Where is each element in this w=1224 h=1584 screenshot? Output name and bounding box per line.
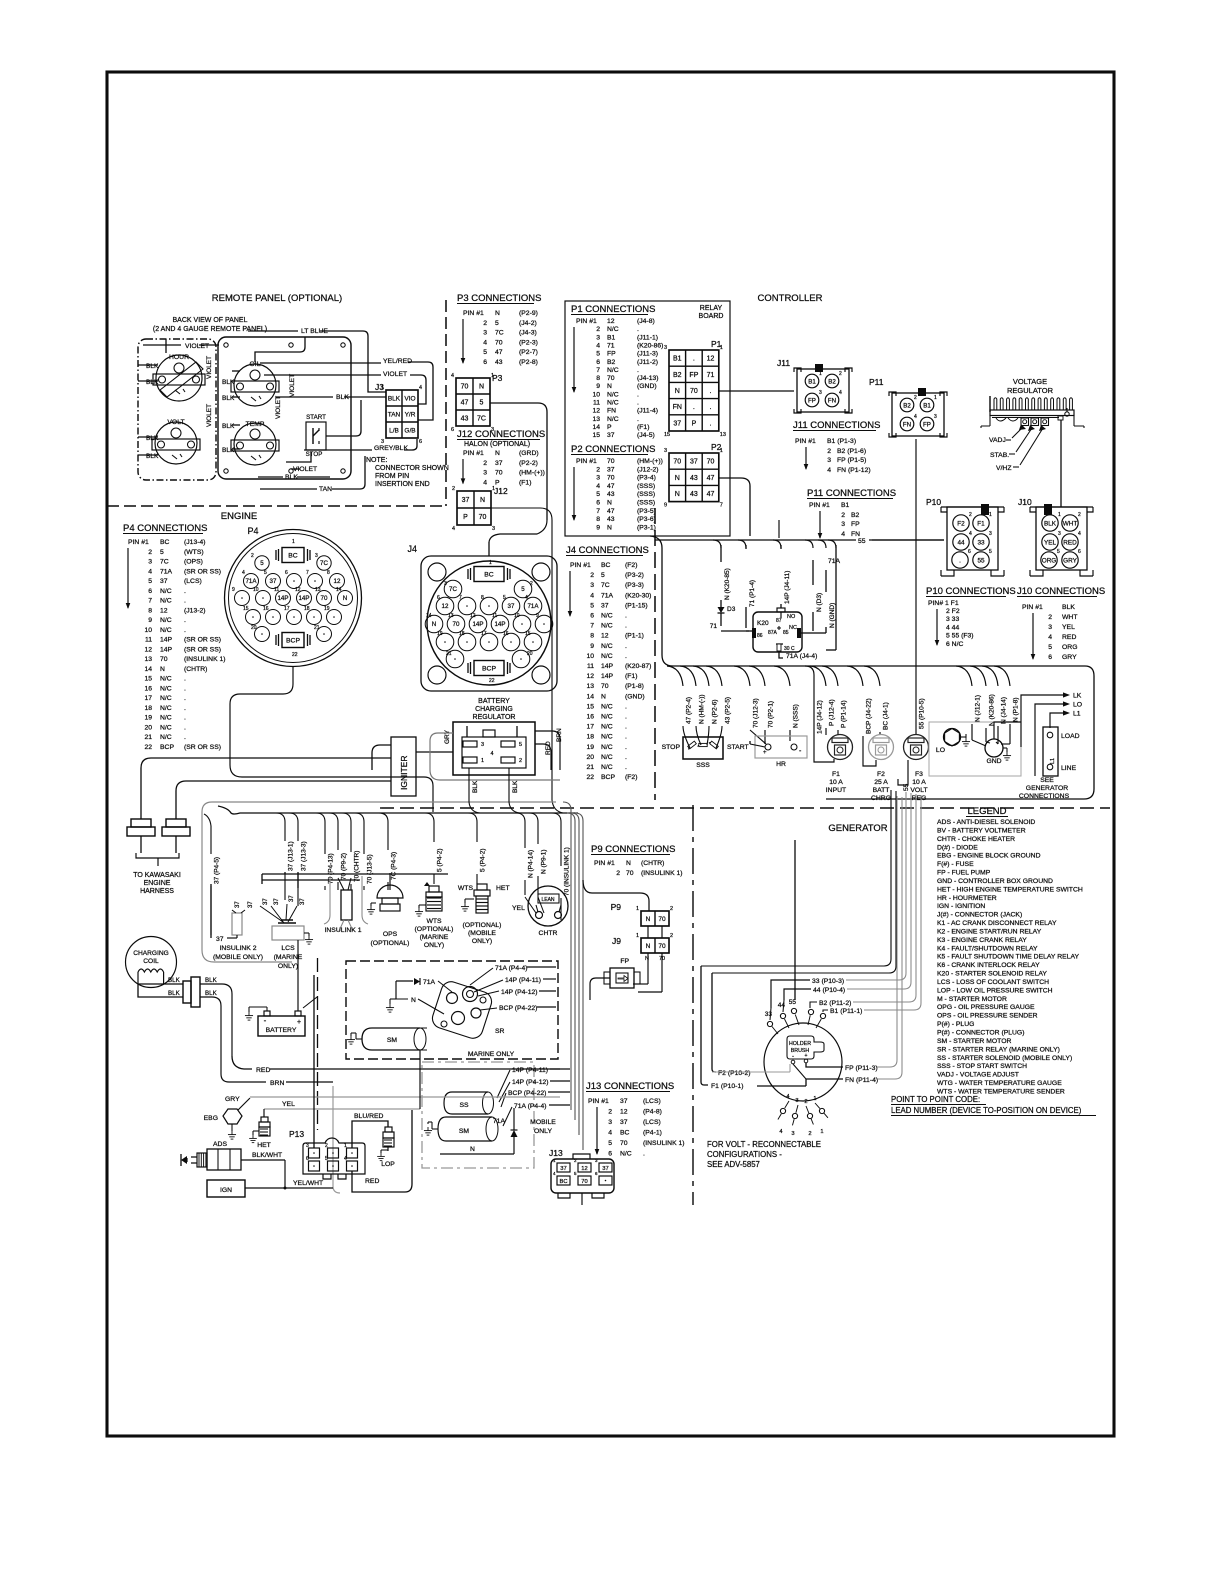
- svg-text:(LCS): (LCS): [184, 578, 202, 585]
- svg-text:12: 12: [592, 408, 600, 415]
- svg-text:ENGINE: ENGINE: [221, 511, 257, 522]
- svg-text:70 (J13-5): 70 (J13-5): [366, 854, 373, 884]
- svg-text:N/C: N/C: [601, 734, 613, 741]
- svg-text:.: .: [625, 703, 627, 710]
- svg-text:1: 1: [636, 906, 639, 912]
- svg-text:N: N: [601, 693, 606, 700]
- svg-text:(SSS): (SSS): [637, 491, 655, 498]
- svg-text:22: 22: [586, 774, 594, 781]
- svg-text:N/C: N/C: [160, 627, 172, 634]
- svg-text:6: 6: [596, 500, 600, 507]
- svg-text:14P (P4-11): 14P (P4-11): [512, 1067, 548, 1074]
- svg-text:RELAY: RELAY: [700, 305, 723, 312]
- svg-text:37: 37: [607, 432, 615, 439]
- svg-text:SEE: SEE: [1040, 777, 1054, 784]
- svg-text:SS - STARTER SOLENOID (MOBILE: SS - STARTER SOLENOID (MOBILE ONLY): [937, 1055, 1072, 1062]
- svg-text:N: N: [479, 384, 484, 391]
- svg-text:ENGINE: ENGINE: [144, 880, 171, 887]
- svg-text:47: 47: [707, 491, 715, 498]
- svg-text:22: 22: [489, 678, 495, 684]
- svg-text:(P3-6): (P3-6): [637, 516, 656, 523]
- svg-text:47: 47: [461, 400, 469, 407]
- svg-text:(LCS): (LCS): [643, 1098, 661, 1105]
- svg-text:BLK: BLK: [222, 447, 235, 454]
- svg-text:70: 70: [658, 916, 666, 923]
- svg-text:.: .: [184, 617, 186, 624]
- svg-text:13: 13: [315, 587, 321, 593]
- svg-text:N/C: N/C: [607, 326, 619, 333]
- svg-text:.: .: [625, 724, 627, 731]
- svg-text:2: 2: [530, 581, 533, 587]
- svg-text:7C: 7C: [320, 560, 328, 567]
- svg-text:FN: FN: [903, 422, 911, 429]
- svg-text:N/C: N/C: [601, 754, 613, 761]
- svg-text:3: 3: [596, 475, 600, 482]
- svg-text:4: 4: [419, 385, 422, 391]
- svg-text:3: 3: [934, 414, 937, 420]
- svg-text:J4 CONNECTIONS: J4 CONNECTIONS: [566, 545, 649, 556]
- svg-text:37: 37: [235, 901, 241, 908]
- svg-text:BLK: BLK: [146, 379, 159, 386]
- svg-text:.: .: [184, 598, 186, 605]
- svg-text:ORG: ORG: [1062, 644, 1077, 651]
- svg-text:5: 5: [495, 320, 499, 327]
- svg-text:4: 4: [596, 342, 600, 349]
- svg-text:BCP (J4-22): BCP (J4-22): [865, 698, 872, 734]
- svg-text:.: .: [625, 734, 627, 741]
- svg-text:P1 CONNECTIONS: P1 CONNECTIONS: [571, 304, 655, 315]
- svg-text:L/B: L/B: [389, 428, 399, 435]
- svg-text:9: 9: [664, 503, 667, 509]
- svg-text:PIN #1: PIN #1: [128, 539, 149, 546]
- svg-text:1: 1: [720, 448, 723, 454]
- svg-text:3: 3: [795, 1098, 798, 1104]
- svg-text:N/C: N/C: [160, 676, 172, 683]
- svg-text:B2: B2: [673, 372, 682, 379]
- svg-text:17: 17: [284, 606, 290, 612]
- svg-text:BCP: BCP: [160, 744, 174, 751]
- svg-text:70: 70: [707, 459, 715, 466]
- svg-text:N: N: [675, 491, 680, 498]
- svg-text:7C: 7C: [160, 559, 169, 566]
- svg-text:VIO: VIO: [404, 396, 415, 403]
- svg-text:3: 3: [483, 330, 487, 337]
- svg-text:47: 47: [607, 483, 615, 490]
- svg-text:N/C: N/C: [160, 598, 172, 605]
- svg-text:43: 43: [607, 516, 615, 523]
- svg-text:.: .: [184, 627, 186, 634]
- svg-text:71A: 71A: [601, 592, 614, 599]
- svg-text:47: 47: [607, 508, 615, 515]
- svg-text:B2: B2: [828, 379, 836, 386]
- svg-text:(INSULINK 1): (INSULINK 1): [643, 1140, 685, 1147]
- svg-text:N/C: N/C: [601, 653, 613, 660]
- svg-text:70: 70: [690, 388, 698, 395]
- svg-text:L1: L1: [1050, 758, 1056, 764]
- svg-text:BC: BC: [601, 562, 611, 569]
- svg-text:71: 71: [707, 372, 715, 379]
- svg-text:.: .: [625, 714, 627, 721]
- svg-text:86: 86: [757, 633, 763, 639]
- svg-text:2: 2: [804, 1099, 807, 1105]
- svg-text:70: 70: [607, 375, 615, 382]
- svg-text:(F1): (F1): [625, 673, 637, 680]
- svg-text:HET: HET: [257, 1142, 271, 1149]
- svg-text:.: .: [184, 705, 186, 712]
- svg-text:YEL: YEL: [1062, 624, 1075, 631]
- svg-text:(LCS): (LCS): [643, 1119, 661, 1126]
- svg-text:14P: 14P: [494, 621, 505, 628]
- svg-text:4: 4: [483, 339, 487, 346]
- svg-text:5: 5: [160, 549, 164, 556]
- svg-text:6: 6: [306, 1156, 309, 1162]
- svg-text:P9: P9: [611, 902, 622, 912]
- svg-text:13: 13: [586, 683, 594, 690]
- svg-text:N/C: N/C: [601, 724, 613, 731]
- svg-text:14P: 14P: [601, 673, 614, 680]
- svg-text:BLK: BLK: [222, 395, 235, 402]
- svg-text:7: 7: [148, 598, 152, 605]
- svg-text:70: 70: [626, 870, 634, 877]
- svg-text:(HM-(+)): (HM-(+)): [519, 470, 545, 477]
- svg-text:3: 3: [306, 1143, 309, 1149]
- svg-text:70: 70: [495, 339, 503, 346]
- svg-text:.: .: [184, 695, 186, 702]
- svg-text:ORG: ORG: [1042, 558, 1057, 565]
- svg-text:BLK: BLK: [168, 977, 181, 984]
- svg-text:WTG - WATER TEMPERATURE GAUGE: WTG - WATER TEMPERATURE GAUGE: [937, 1080, 1062, 1087]
- svg-text:N/C: N/C: [160, 715, 172, 722]
- svg-text:N/C: N/C: [160, 588, 172, 595]
- svg-text:.: .: [625, 744, 627, 751]
- svg-text:(K20-87): (K20-87): [625, 663, 651, 670]
- svg-text:12: 12: [581, 1166, 587, 1172]
- svg-text:VOLT: VOLT: [167, 419, 184, 426]
- svg-text:(P3-1): (P3-1): [637, 524, 656, 531]
- svg-text:70: 70: [607, 475, 615, 482]
- svg-text:J9: J9: [612, 936, 621, 946]
- svg-text:-: -: [792, 1054, 794, 1060]
- svg-text:MOBILE: MOBILE: [530, 1119, 556, 1126]
- svg-text:37: 37: [560, 1166, 566, 1172]
- svg-text:N/C: N/C: [160, 695, 172, 702]
- svg-text:EBG: EBG: [204, 1115, 218, 1122]
- svg-text:47: 47: [707, 475, 715, 482]
- svg-text:3: 3: [492, 526, 495, 532]
- svg-text:43: 43: [495, 359, 503, 366]
- svg-text:GRY: GRY: [444, 729, 451, 744]
- svg-text:CONFIGURATIONS -: CONFIGURATIONS -: [707, 1150, 782, 1159]
- svg-text:14P: 14P: [160, 646, 173, 653]
- svg-text:2: 2: [325, 1143, 328, 1149]
- svg-text:70: 70: [453, 621, 460, 628]
- svg-text:HOLDER: HOLDER: [789, 1041, 811, 1047]
- svg-text:14P: 14P: [277, 595, 288, 602]
- svg-text:6: 6: [590, 613, 594, 620]
- svg-text:70: 70: [495, 470, 503, 477]
- svg-text:N: N: [607, 500, 612, 507]
- svg-text:5: 5: [483, 349, 487, 356]
- svg-text:HOUR: HOUR: [169, 354, 189, 361]
- svg-text:4: 4: [608, 1130, 612, 1137]
- svg-text:FP - FUEL PUMP: FP - FUEL PUMP: [937, 870, 991, 877]
- svg-text:70: 70: [321, 595, 328, 602]
- svg-text:PIN #1: PIN #1: [1022, 604, 1043, 611]
- svg-text:3: 3: [596, 334, 600, 341]
- svg-text:N/C: N/C: [601, 714, 613, 721]
- svg-text:P4: P4: [247, 526, 258, 536]
- svg-text:B1: B1: [923, 403, 931, 410]
- svg-text:9: 9: [148, 617, 152, 624]
- svg-text:NOTE:: NOTE:: [366, 457, 387, 464]
- svg-text:3: 3: [664, 448, 667, 454]
- svg-text:4: 4: [914, 414, 917, 420]
- svg-text:47: 47: [495, 349, 503, 356]
- svg-text:FOR VOLT - RECONNECTABLE: FOR VOLT - RECONNECTABLE: [707, 1140, 821, 1149]
- svg-text:LINE: LINE: [1061, 765, 1077, 772]
- svg-text:2: 2: [251, 553, 254, 559]
- svg-text:21: 21: [446, 651, 452, 657]
- svg-text:3: 3: [841, 521, 845, 528]
- svg-text:18: 18: [304, 606, 310, 612]
- svg-text:37: 37: [602, 1166, 608, 1172]
- svg-text:71A: 71A: [245, 578, 257, 585]
- svg-text:19: 19: [437, 631, 443, 637]
- svg-text:K20: K20: [757, 620, 769, 627]
- svg-text:.: .: [625, 623, 627, 630]
- svg-text:WTS: WTS: [458, 885, 474, 892]
- svg-text:P3 CONNECTIONS: P3 CONNECTIONS: [457, 293, 541, 304]
- svg-text:14P (P4-12): 14P (P4-12): [512, 1079, 549, 1086]
- svg-text:SSS: SSS: [696, 762, 710, 769]
- svg-text:GRY: GRY: [1063, 558, 1077, 565]
- svg-text:14P (P4-11): 14P (P4-11): [505, 977, 541, 984]
- svg-text:4: 4: [827, 467, 831, 474]
- svg-text:12: 12: [144, 646, 152, 653]
- svg-text:YEL: YEL: [512, 905, 525, 912]
- svg-text:(F1): (F1): [637, 424, 649, 431]
- svg-text:20: 20: [527, 651, 533, 657]
- svg-text:B1 (P1-3): B1 (P1-3): [827, 438, 856, 445]
- svg-text:N (P4-14): N (P4-14): [527, 850, 534, 878]
- svg-text:.: .: [637, 400, 639, 407]
- svg-text:14: 14: [144, 666, 152, 673]
- svg-text:5: 5: [601, 572, 605, 579]
- svg-text:(F2): (F2): [625, 774, 637, 781]
- svg-text:1: 1: [934, 395, 937, 401]
- svg-text:15: 15: [144, 676, 152, 683]
- svg-text:5: 5: [596, 491, 600, 498]
- svg-text:13: 13: [720, 432, 726, 438]
- svg-text:37 (J13-3): 37 (J13-3): [300, 841, 307, 871]
- svg-text:(F2): (F2): [625, 562, 637, 569]
- svg-text:7C (P4-3): 7C (P4-3): [390, 852, 397, 880]
- svg-text:5: 5: [480, 400, 484, 407]
- svg-text:N/C: N/C: [601, 744, 613, 751]
- svg-text:37: 37: [216, 936, 224, 943]
- svg-text:TEMP: TEMP: [246, 421, 265, 428]
- svg-text:(J13-4): (J13-4): [184, 539, 206, 546]
- svg-text:(J4-8): (J4-8): [637, 318, 655, 325]
- svg-text:BC (J4-1): BC (J4-1): [882, 702, 889, 730]
- svg-text:70 (J12-3): 70 (J12-3): [752, 698, 759, 728]
- svg-text:1: 1: [720, 345, 723, 351]
- svg-text:(J13-2): (J13-2): [184, 607, 206, 614]
- svg-text:6: 6: [419, 439, 422, 445]
- svg-text:F2: F2: [957, 521, 965, 528]
- svg-text:P(#) - PLUG: P(#) - PLUG: [937, 1021, 974, 1028]
- svg-text:REGULATOR: REGULATOR: [1007, 386, 1054, 395]
- svg-text:FN: FN: [851, 531, 860, 538]
- svg-text:F1 (P10-1): F1 (P10-1): [711, 1083, 743, 1090]
- svg-text:(P2-8): (P2-8): [519, 359, 538, 366]
- svg-text:(J11-4): (J11-4): [637, 408, 658, 415]
- svg-text:INSULINK 2: INSULINK 2: [219, 945, 256, 952]
- svg-text:BC: BC: [620, 1130, 630, 1137]
- svg-text:1: 1: [491, 373, 494, 379]
- svg-text:11: 11: [593, 400, 600, 407]
- svg-text:ONLY): ONLY): [424, 942, 444, 949]
- svg-text:.: .: [637, 367, 639, 374]
- svg-text:43 (P2-5): 43 (P2-5): [724, 697, 731, 724]
- svg-text:6: 6: [608, 1151, 612, 1158]
- svg-text:2: 2: [1048, 614, 1052, 621]
- svg-text:B2 (P1-6): B2 (P1-6): [837, 448, 866, 455]
- svg-text:BLK/WHT: BLK/WHT: [252, 1152, 282, 1159]
- svg-text:37: 37: [274, 898, 280, 905]
- svg-text:B2: B2: [903, 403, 911, 410]
- svg-text:VADJ - VOLTAGE ADJUST: VADJ - VOLTAGE ADJUST: [937, 1072, 1019, 1079]
- svg-text:(J11-2): (J11-2): [637, 359, 658, 366]
- svg-text:17: 17: [481, 631, 487, 637]
- svg-text:13: 13: [448, 613, 454, 619]
- svg-text:INSULINK 1: INSULINK 1: [324, 927, 361, 934]
- svg-text:7: 7: [459, 595, 462, 601]
- svg-text:YEL/WHT: YEL/WHT: [293, 1180, 323, 1187]
- svg-text:37: 37: [270, 578, 277, 585]
- svg-text:OPG - OIL PRESSURE GAUGE: OPG - OIL PRESSURE GAUGE: [937, 1004, 1035, 1011]
- svg-text:70: 70: [620, 1140, 628, 1147]
- svg-text:N: N: [495, 450, 500, 457]
- svg-text:4: 4: [841, 531, 845, 538]
- svg-text:M - STARTER MOTOR: M - STARTER MOTOR: [937, 996, 1007, 1003]
- svg-text:.: .: [693, 356, 695, 363]
- svg-text:71A: 71A: [828, 558, 841, 565]
- svg-text:2: 2: [519, 758, 522, 764]
- svg-text:3: 3: [444, 581, 447, 587]
- svg-text:1: 1: [489, 560, 492, 566]
- svg-text:21: 21: [586, 764, 594, 771]
- svg-text:6: 6: [148, 588, 152, 595]
- svg-text:VOLTAGE: VOLTAGE: [1013, 377, 1047, 386]
- svg-text:(SR OR SS): (SR OR SS): [184, 744, 221, 751]
- svg-text:K20 - STARTER SOLENOID RELAY: K20 - STARTER SOLENOID RELAY: [937, 971, 1047, 978]
- svg-text:2: 2: [670, 906, 673, 912]
- svg-text:N/C: N/C: [607, 400, 619, 407]
- svg-text:REGULATOR: REGULATOR: [473, 714, 516, 721]
- svg-text:71 (P1-4): 71 (P1-4): [749, 580, 756, 607]
- svg-text:18: 18: [586, 734, 594, 741]
- svg-text:71A (P4-4): 71A (P4-4): [495, 965, 528, 972]
- svg-text:BV - BATTERY VOLTMETER: BV - BATTERY VOLTMETER: [937, 827, 1026, 834]
- svg-text:1: 1: [292, 539, 295, 545]
- svg-text:22: 22: [144, 744, 152, 751]
- svg-text:BC: BC: [484, 572, 494, 579]
- svg-text:BLK: BLK: [146, 435, 159, 442]
- svg-text:15: 15: [525, 631, 531, 637]
- svg-text:FP: FP: [923, 422, 931, 429]
- svg-text:19: 19: [324, 606, 330, 612]
- svg-text:N: N: [626, 860, 631, 867]
- svg-text:L1: L1: [1073, 711, 1081, 718]
- svg-text:LEAD NUMBER (DEVICE TO-POSITIO: LEAD NUMBER (DEVICE TO-POSITION ON DEVIC…: [891, 1106, 1082, 1115]
- svg-text:FP: FP: [689, 372, 698, 379]
- svg-text:14: 14: [586, 693, 594, 700]
- svg-text:1: 1: [1058, 512, 1061, 518]
- svg-text:14P: 14P: [472, 621, 483, 628]
- svg-text:8: 8: [596, 375, 600, 382]
- svg-text:5: 5: [608, 1140, 612, 1147]
- svg-text:N: N: [432, 621, 436, 628]
- svg-text:8: 8: [148, 607, 152, 614]
- svg-text:BATTERY: BATTERY: [478, 698, 510, 705]
- svg-text:70: 70: [673, 459, 681, 466]
- svg-text:15: 15: [586, 703, 594, 710]
- svg-text:BLK: BLK: [1044, 521, 1057, 528]
- svg-text:33 (P10-3): 33 (P10-3): [812, 978, 844, 985]
- svg-text:N: N: [607, 524, 612, 531]
- svg-text:F1: F1: [977, 521, 985, 528]
- svg-text:7: 7: [306, 570, 309, 576]
- svg-text:LO: LO: [1073, 702, 1082, 709]
- svg-text:N/C: N/C: [160, 734, 172, 741]
- svg-text:3: 3: [819, 390, 822, 396]
- svg-text:85: 85: [783, 630, 789, 636]
- svg-text:BCP: BCP: [601, 774, 615, 781]
- svg-text:BLU/RED: BLU/RED: [354, 1113, 384, 1120]
- svg-text:(OPS): (OPS): [184, 559, 203, 566]
- svg-text:18: 18: [144, 705, 152, 712]
- svg-text:VIOLET: VIOLET: [275, 396, 282, 419]
- svg-text:+: +: [805, 1053, 808, 1059]
- svg-text:SSS - STOP START SWITCH: SSS - STOP START SWITCH: [937, 1063, 1027, 1070]
- svg-text:6: 6: [437, 595, 440, 601]
- svg-text:1: 1: [492, 486, 495, 492]
- svg-text:(J11-1): (J11-1): [637, 334, 658, 341]
- svg-text:2: 2: [596, 466, 600, 473]
- svg-text:2: 2: [670, 933, 673, 939]
- svg-text:K3 - ENGINE CRANK RELAY: K3 - ENGINE CRANK RELAY: [937, 937, 1027, 944]
- svg-text:+: +: [297, 1019, 301, 1026]
- svg-text:19: 19: [144, 715, 152, 722]
- svg-text:BCP: BCP: [482, 666, 496, 673]
- svg-text:(J4-13): (J4-13): [637, 375, 659, 382]
- svg-text:SR - STARTER RELAY (MARINE ONL: SR - STARTER RELAY (MARINE ONLY): [937, 1046, 1060, 1053]
- svg-text:3: 3: [1048, 624, 1052, 631]
- svg-text:J13 CONNECTIONS: J13 CONNECTIONS: [586, 1081, 674, 1092]
- svg-text:17: 17: [586, 724, 594, 731]
- svg-text:GRY: GRY: [225, 1096, 240, 1103]
- svg-text:5 55 (F3): 5 55 (F3): [946, 633, 974, 640]
- svg-text:B1: B1: [841, 502, 850, 509]
- svg-text:1: 1: [819, 371, 822, 377]
- svg-text:.: .: [625, 754, 627, 761]
- svg-text:N/C: N/C: [601, 643, 613, 650]
- svg-text:17: 17: [144, 695, 152, 702]
- svg-text:12: 12: [620, 1109, 628, 1116]
- svg-text:3: 3: [791, 1131, 794, 1137]
- svg-text:K6 - CRANK INTERLOCK RELAY: K6 - CRANK INTERLOCK RELAY: [937, 962, 1040, 969]
